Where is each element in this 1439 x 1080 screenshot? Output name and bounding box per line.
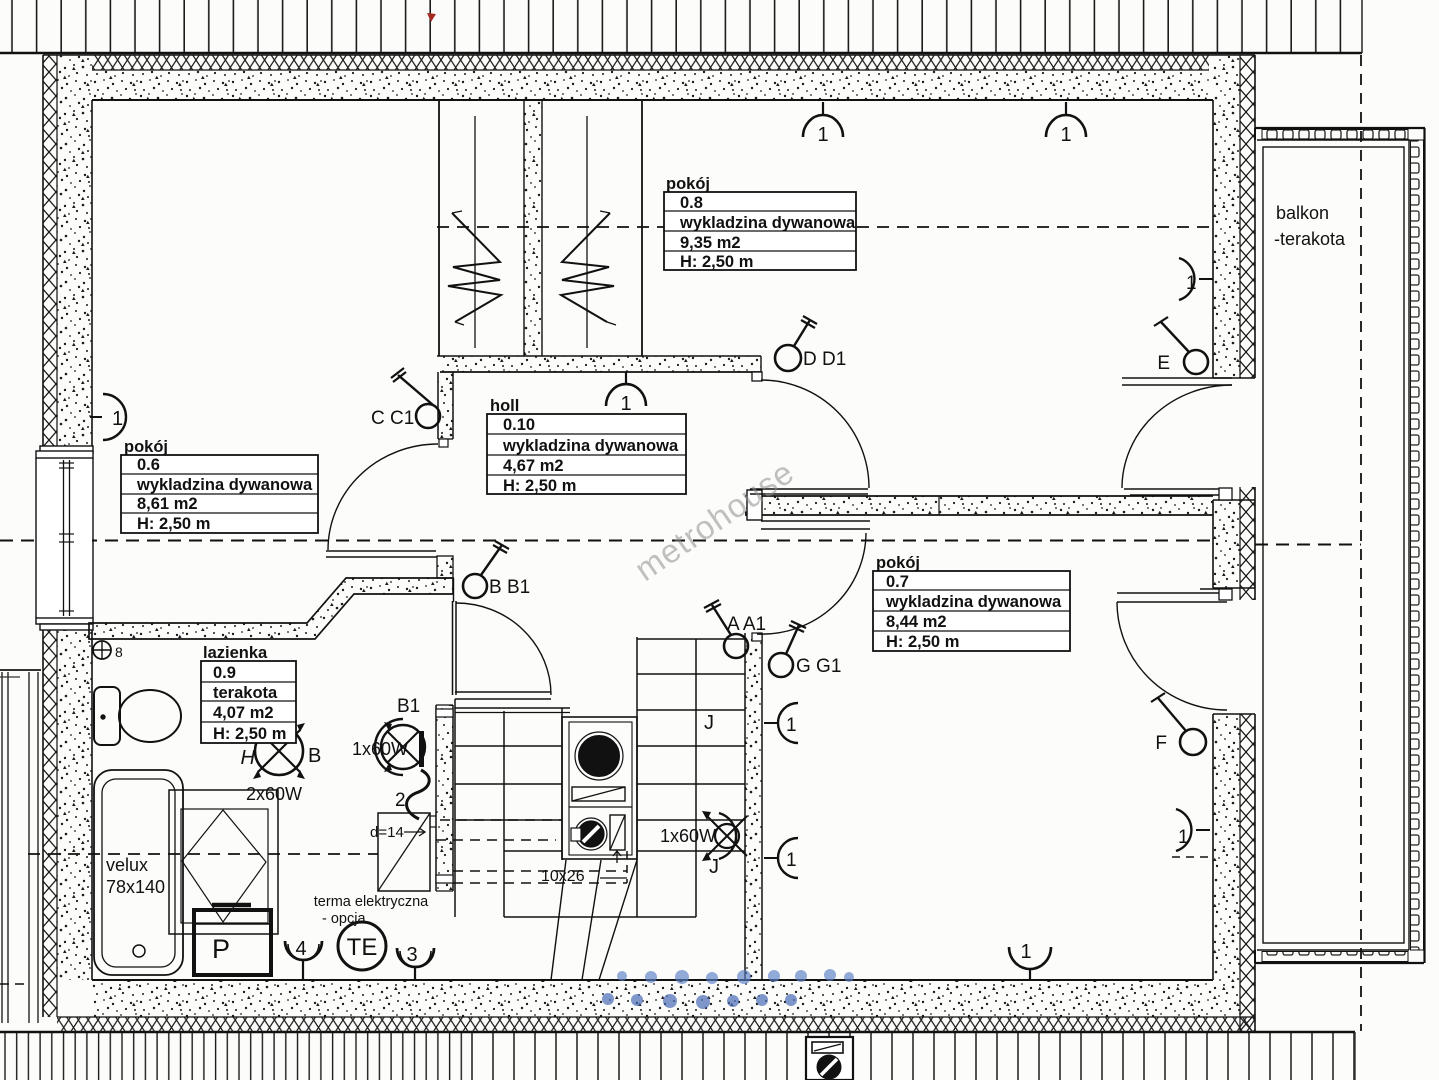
svg-text:H: 2,50 m: H: 2,50 m [213, 725, 286, 743]
bottom wall [92, 980, 1213, 1017]
right flight treads [637, 638, 745, 640]
svg-text:A A1: A A1 [727, 614, 766, 635]
top roof band [0, 0, 1362, 52]
divider wall 0.8/0.7 [745, 496, 1213, 515]
chimney flue center lines [474, 116, 476, 348]
svg-text:0.6: 0.6 [137, 456, 160, 474]
svg-text:H: 2,50 m: H: 2,50 m [680, 253, 753, 271]
washing machine in bottom band [806, 1037, 853, 1080]
svg-text:H: H [241, 747, 256, 769]
svg-text:D D1: D D1 [803, 349, 846, 370]
bathroom/stairs wall [436, 705, 453, 891]
chimney flue zigzag right [561, 211, 616, 325]
svg-text:1: 1 [620, 393, 631, 415]
bathtub [94, 770, 183, 975]
svg-text:P: P [212, 934, 230, 964]
svg-text:78x140: 78x140 [106, 877, 165, 897]
lamp H-B 2x60W [241, 723, 322, 804]
svg-text:10x26: 10x26 [541, 868, 585, 885]
svg-text:E: E [1157, 353, 1170, 374]
window marker C C1 [371, 368, 440, 429]
svg-text:1x60W: 1x60W [660, 826, 716, 846]
left terrace band [0, 670, 41, 1023]
svg-text:velux: velux [106, 855, 148, 875]
svg-text:1: 1 [1178, 827, 1189, 848]
side lamp 1 right wall lower (F) [1172, 809, 1210, 857]
window marker A A1 [704, 600, 766, 658]
svg-text:1: 1 [786, 715, 797, 736]
side lamp 1 pokoj 0.7 upper [764, 703, 798, 743]
blue dots row 2 [602, 993, 797, 1009]
TE symbol [314, 894, 429, 970]
top wall [92, 55, 1209, 70]
svg-text:0.8: 0.8 [680, 194, 703, 212]
svg-text:4,67 m2: 4,67 m2 [503, 457, 564, 475]
side lamp 1 left wall [90, 394, 126, 440]
F door leaf + arc + sill [1117, 592, 1227, 594]
svg-text:B1: B1 [397, 696, 420, 717]
info box pokoj 0.7 [873, 554, 1070, 651]
right wall seg1 [1213, 55, 1240, 378]
svg-text:TE: TE [347, 934, 378, 961]
svg-text:8,61 m2: 8,61 m2 [137, 495, 198, 513]
svg-text:2: 2 [395, 790, 406, 811]
dashed line y=227 (chimney level) [437, 226, 1213, 228]
info box holl 0.10 [487, 397, 686, 495]
svg-text:wykladzina dywanowa: wykladzina dywanowa [679, 214, 856, 232]
10x26 dashed duct [440, 819, 562, 821]
holl top wall [440, 356, 761, 372]
svg-text:1: 1 [786, 850, 797, 871]
svg-text:wykladzina dywanowa: wykladzina dywanowa [136, 476, 313, 494]
C door (pokoj 0.6) leaf + arc [326, 550, 436, 552]
svg-text:balkon: balkon [1276, 203, 1329, 223]
svg-text:B: B [308, 745, 321, 767]
svg-text:B B1: B B1 [489, 577, 530, 598]
window marker E [1154, 317, 1208, 374]
svg-text:holl: holl [490, 397, 519, 415]
svg-text:4,07 m2: 4,07 m2 [213, 704, 274, 722]
left wall lower [43, 630, 57, 1017]
svg-text:pokój: pokój [666, 175, 710, 193]
svg-text:1: 1 [1186, 273, 1197, 294]
left flight treads [455, 707, 570, 709]
lamp 4 bathroom [285, 938, 322, 980]
svg-text:J: J [704, 712, 714, 734]
svg-text:0.7: 0.7 [886, 573, 909, 591]
svg-text:1: 1 [817, 124, 828, 146]
ceiling lamp 1 pokoj 0.8 left [803, 102, 843, 146]
bathroom top wall (band A + diagonal + band C) [89, 578, 453, 639]
svg-text:wykladzina dywanowa: wykladzina dywanowa [502, 437, 679, 455]
svg-text:1x60W: 1x60W [352, 739, 408, 759]
svg-text:4: 4 [295, 938, 306, 960]
drain symbol [93, 641, 111, 659]
side lamp 1 right wall upper (E) [1179, 258, 1213, 300]
D door (pokoj 0.8) leaf + arc [750, 488, 868, 490]
svg-text:1: 1 [112, 408, 123, 430]
svg-text:9,35 m2: 9,35 m2 [680, 234, 741, 252]
E door leaf + arc + sill [1122, 377, 1232, 379]
stairs outline verticals [454, 699, 456, 917]
svg-text:F: F [1155, 733, 1167, 754]
red speck [427, 13, 436, 22]
svg-text:0.10: 0.10 [503, 416, 535, 434]
chimney flue zigzag left [448, 211, 501, 325]
window marker G G1 [769, 621, 841, 677]
svg-text:3: 3 [406, 944, 417, 966]
main horizontal dashed line y=541 [0, 540, 1213, 542]
window marker F [1151, 693, 1206, 755]
window marker D D1 [775, 316, 846, 371]
A door (pokoj 0.7) leaf + arc [761, 520, 870, 522]
dashed vertical at x=1361 (roof edge) [1360, 55, 1362, 1031]
right wall seg3 [1213, 714, 1240, 1017]
svg-text:2x60W: 2x60W [246, 784, 302, 804]
svg-text:- opcja: - opcja [322, 911, 366, 927]
B door (bathroom) leaf + arc [452, 601, 454, 695]
svg-text:H: 2,50 m: H: 2,50 m [503, 477, 576, 495]
svg-text:lazienka: lazienka [203, 644, 268, 662]
svg-text:-terakota: -terakota [1274, 229, 1346, 249]
svg-text:C C1: C C1 [371, 408, 414, 429]
lamp 3 bathroom [397, 944, 434, 980]
svg-text:pokój: pokój [876, 554, 920, 572]
svg-text:1: 1 [1060, 124, 1071, 146]
svg-text:H: 2,50 m: H: 2,50 m [137, 515, 210, 533]
svg-text:H: 2,50 m: H: 2,50 m [886, 633, 959, 651]
bottom roof band left [0, 1033, 470, 1080]
right wall seg2 (between E and F doors) [1213, 500, 1240, 588]
left window [36, 446, 93, 630]
svg-text:0.9: 0.9 [213, 664, 236, 682]
svg-text:terakota: terakota [213, 684, 278, 702]
svg-text:8,44 m2: 8,44 m2 [886, 613, 947, 631]
svg-text:terma elektryczna: terma elektryczna [314, 894, 429, 910]
P washing box [194, 910, 271, 975]
blue dots row 1 [617, 969, 854, 984]
side lamp 1 pokoj 0.7 lower [764, 838, 798, 878]
lamp B1 1x60W [352, 696, 429, 819]
shower [169, 790, 278, 934]
lamp J 1x60W stairs [660, 712, 747, 878]
ceiling lamp 1 holl [606, 372, 646, 415]
svg-text:8: 8 [115, 644, 123, 660]
bottom roof band right [470, 1033, 1355, 1080]
bottom edge [504, 916, 696, 918]
balcony [1255, 128, 1425, 963]
ceiling lamp 1 pokoj 0.7 bottom [1009, 941, 1051, 981]
info box pokoj 0.8 [664, 175, 856, 271]
small dashes bottom-left [0, 983, 30, 985]
left wall upper [43, 55, 57, 448]
info box lazienka 0.9 [201, 644, 296, 743]
info box pokoj 0.6 [121, 438, 318, 533]
winder diagonals [551, 860, 566, 980]
svg-text:wykladzina dywanowa: wykladzina dywanowa [885, 593, 1062, 611]
pokoj 0.7 left wall [745, 633, 762, 980]
window marker B B1 [463, 541, 530, 598]
ceiling lamp 1 pokoj 0.8 right [1046, 102, 1086, 146]
C-wall (0.6/holl partition) [438, 372, 453, 439]
toilet [94, 687, 120, 745]
svg-text:G G1: G G1 [796, 656, 841, 677]
svg-text:J: J [709, 856, 719, 878]
chimney block [438, 101, 440, 356]
svg-text:d=14: d=14 [370, 824, 404, 841]
dashed line y=854 (bathroom) [28, 853, 378, 855]
svg-text:1: 1 [1020, 941, 1031, 963]
duct box with d=14 [378, 813, 430, 891]
svg-text:pokój: pokój [124, 438, 168, 456]
duct shaft [562, 717, 637, 859]
